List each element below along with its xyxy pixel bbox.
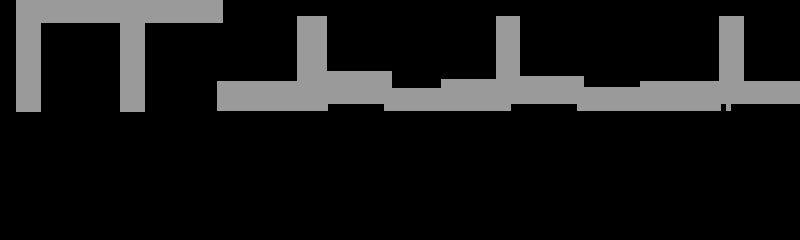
low band segment D low [392, 88, 441, 111]
low band segment I low [584, 87, 640, 110]
pulse bar P3 with deep base [297, 16, 328, 112]
pulse bar P4 left part deep base [496, 16, 512, 111]
high-level top bar (signal high segment) [16, 0, 224, 23]
pulse bar P4 right part shallow base [511, 16, 519, 104]
pulse bar P5 deep part [726, 16, 731, 111]
pulse bar P5 shallow notch part [721, 16, 726, 105]
low band segment N [744, 81, 800, 104]
low band segment C raised deep column [384, 71, 392, 111]
falling-edge leg 2 [120, 23, 145, 112]
pulse bar P5 deep sliver [719, 16, 720, 111]
low band segment G [520, 76, 577, 103]
low band segment A [217, 81, 329, 112]
pulse bar P5 right shallow part [731, 16, 744, 104]
low band segment E [441, 79, 496, 110]
low band segment B raised [327, 71, 383, 104]
falling-edge leg 1 [16, 23, 41, 112]
low band segment J [640, 81, 719, 111]
low band segment H deep column [577, 76, 585, 111]
